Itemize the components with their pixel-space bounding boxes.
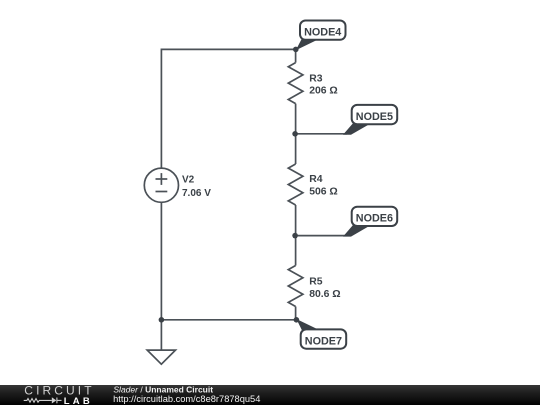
resistor R5 — [288, 266, 340, 307]
wire: NODE5 stub — [296, 133, 347, 135]
junction dot NODE7 — [294, 317, 300, 323]
wire: bottom horizontal NODE7 to ground junction — [161, 319, 296, 321]
junction dot NODE6 — [292, 233, 298, 239]
CircuitLab logo wordmark — [24, 383, 94, 397]
resistor R4 — [288, 164, 337, 205]
footer bar — [0, 385, 540, 405]
junction dot ground — [159, 317, 165, 323]
wire: R4 to NODE6 junction — [295, 205, 297, 236]
wire: NODE5 junction to R4 — [295, 134, 297, 164]
node NODE7 flag — [296, 319, 346, 349]
ground — [147, 320, 175, 364]
junction dot NODE5 — [292, 131, 298, 137]
junction dot NODE4 — [293, 47, 299, 53]
svg-text:http://circuitlab.com/c8e8r787: http://circuitlab.com/c8e8r7878qu54 — [113, 394, 260, 404]
wire: NODE6 junction to R5 — [295, 236, 297, 266]
wire: R3 to NODE5 junction — [295, 104, 297, 134]
svg-text:LAB: LAB — [64, 396, 93, 405]
wire: right vertical NODE4 to R3 — [295, 49, 297, 62]
resistor R3 — [288, 63, 337, 104]
voltage source V2 — [144, 168, 211, 202]
svg-text:Slader / Unnamed Circuit: Slader / Unnamed Circuit — [113, 384, 213, 394]
wire: R5 to NODE7 junction — [295, 307, 297, 320]
footer url line — [113, 394, 260, 404]
wire: NODE6 stub — [296, 235, 347, 237]
node NODE5 flag — [343, 105, 397, 135]
footer title line — [113, 384, 213, 394]
wire: top horizontal V2 to NODE4 — [161, 49, 295, 168]
node NODE6 flag — [343, 207, 397, 237]
wire: V2 minus to bottom wire — [160, 202, 162, 319]
node NODE4 flag — [296, 21, 346, 51]
CircuitLab logo LAB text — [64, 396, 93, 405]
CircuitLab logo schematic glyph — [24, 397, 62, 403]
